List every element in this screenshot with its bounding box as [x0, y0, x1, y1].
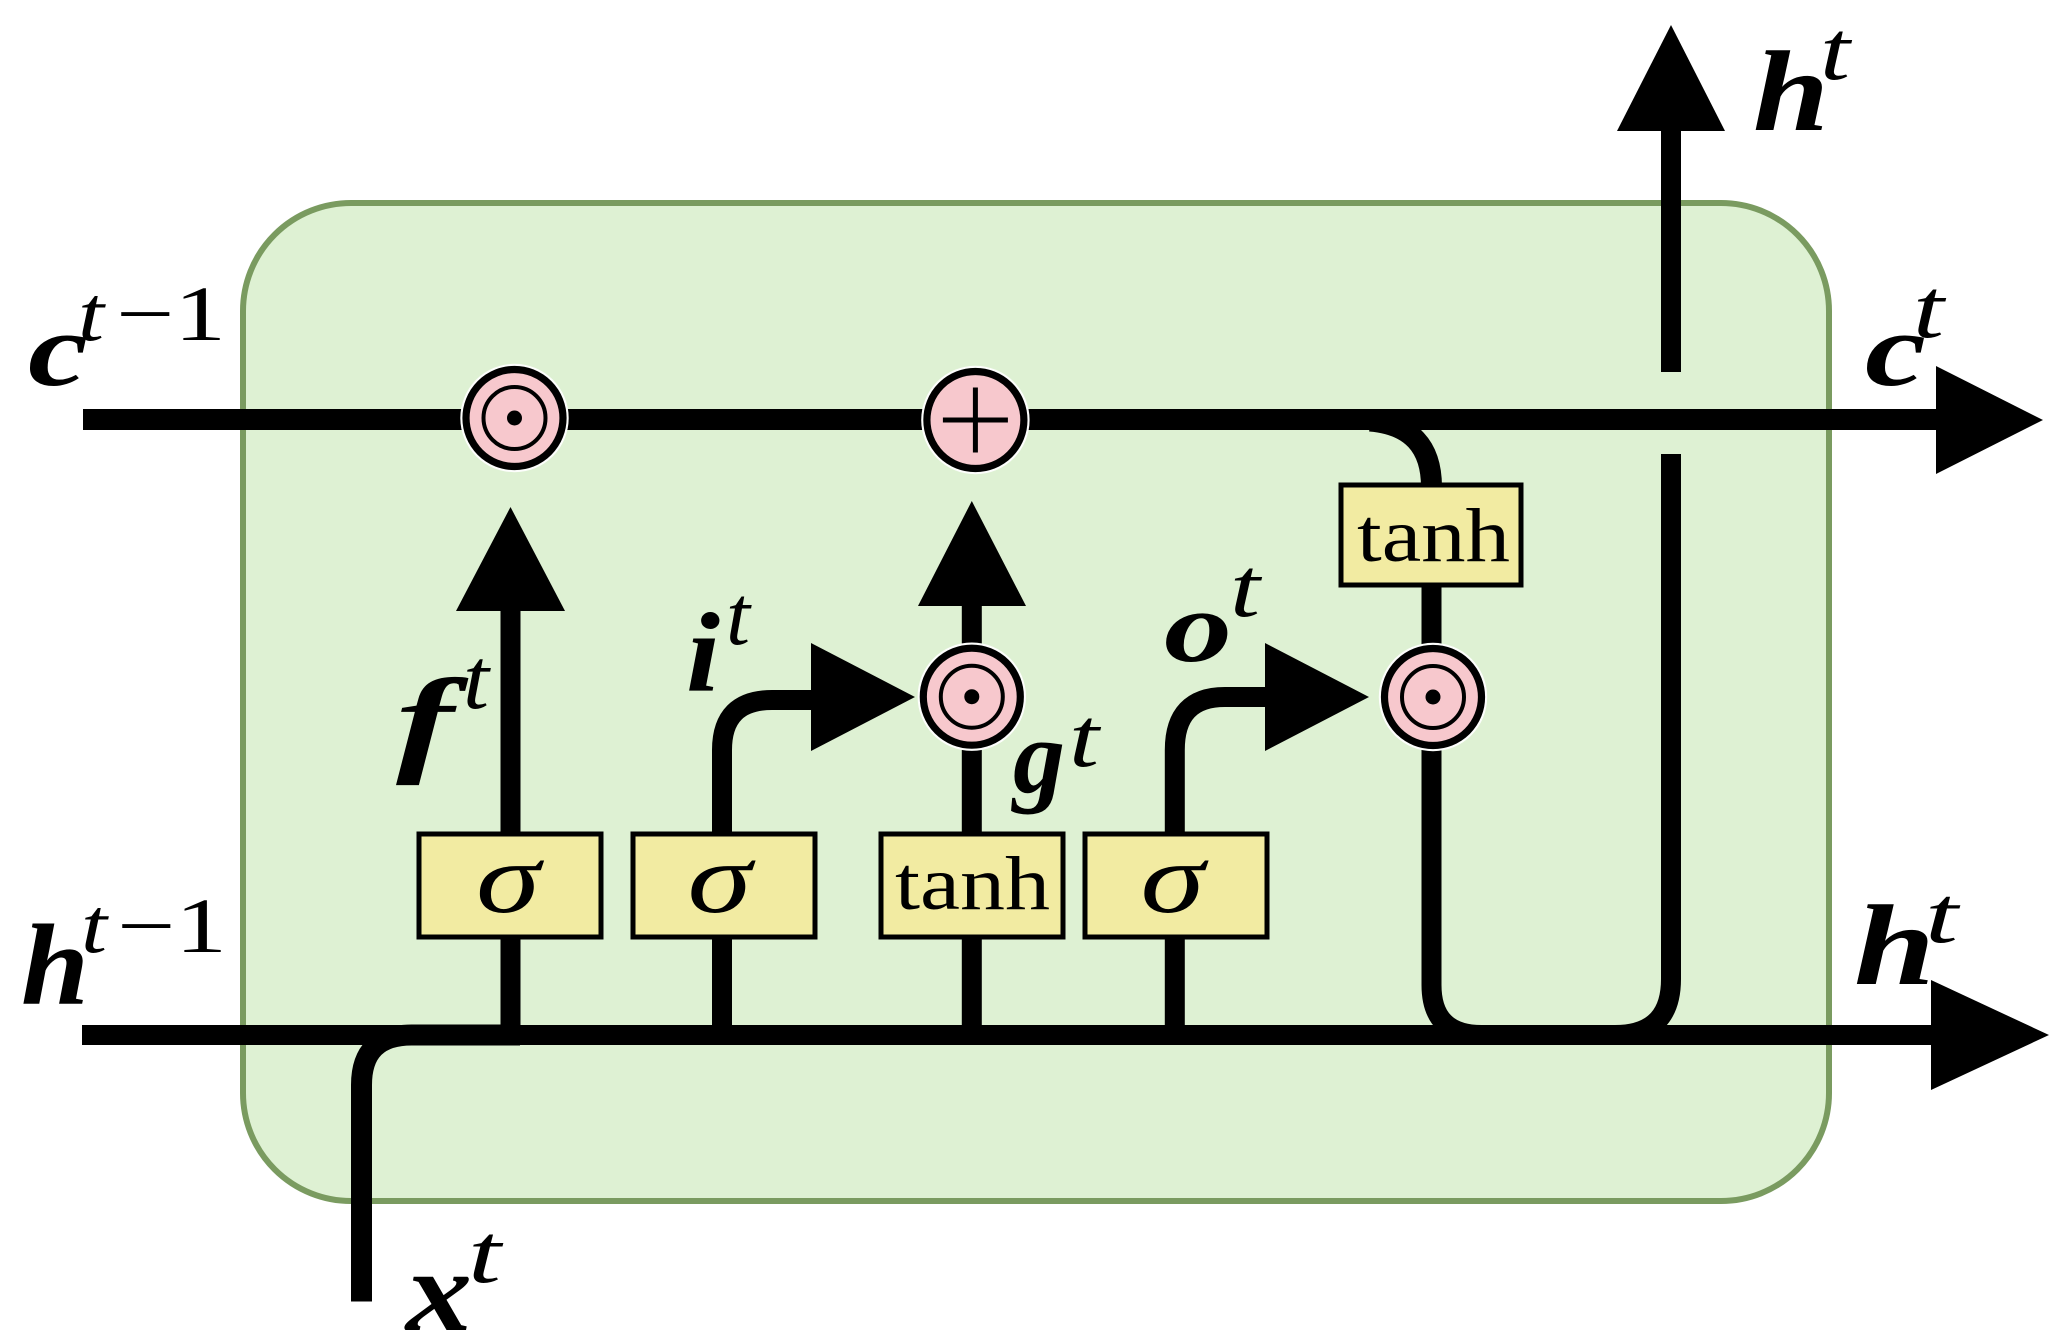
svg-text:t: t — [1820, 4, 1853, 98]
Hadamard node C (input multiply) — [918, 643, 1026, 751]
arrowhead o^t into Hadamard D — [1265, 643, 1369, 751]
svg-text:t: t — [1913, 262, 1947, 356]
Hadamard node D (output multiply) — [1379, 643, 1487, 751]
svg-text:σ: σ — [688, 823, 757, 934]
svg-text:t: t — [1925, 872, 1961, 960]
svg-text:tanh: tanh — [895, 842, 1050, 926]
svg-text:t: t — [468, 1207, 504, 1301]
wire: stem sigma box 2 (input gate) with curve to arrow — [722, 700, 812, 1035]
sigma box 2 (input gate) — [633, 834, 815, 937]
svg-text:h: h — [1753, 28, 1829, 155]
cell body (green rounded box) — [243, 203, 1829, 1201]
svg-text:σ: σ — [476, 823, 545, 934]
svg-text:i: i — [686, 591, 720, 716]
svg-text:x: x — [404, 1228, 472, 1344]
svg-text:tanh: tanh — [1357, 494, 1510, 578]
wire: branch from c-line down to right tanh box — [1370, 421, 1432, 487]
plus node B (state update add) on c-line — [921, 366, 1029, 474]
svg-text:h: h — [21, 902, 89, 1029]
svg-text:o: o — [1164, 571, 1232, 683]
arrowhead h^t top output — [1617, 25, 1725, 131]
wire: h-line (hidden state, horizontal bottom) — [82, 1025, 1933, 1045]
svg-text:t: t — [726, 569, 752, 663]
svg-text:−1: −1 — [116, 270, 226, 357]
svg-text:σ: σ — [1141, 823, 1210, 934]
wire: h^t up-branch upper segment crossing above c-line — [1661, 131, 1681, 372]
wire: c-line (cell state, horizontal top) — [83, 409, 1937, 430]
wire: stem sigma box 4 (output gate) with curve to arrow — [1175, 697, 1265, 1035]
arrowhead c^t output — [1936, 366, 2043, 474]
label h^t (bottom right) — [1854, 872, 1961, 1009]
wire: from right tanh box through Hadamard D down and curve into h-line — [1432, 585, 1561, 1035]
label g^t — [1011, 691, 1102, 815]
svg-text:t: t — [463, 630, 491, 727]
label o^t — [1164, 541, 1263, 683]
label i^t — [686, 569, 752, 716]
wire: stem through sigma box 1 (forget gate) — [501, 611, 521, 1035]
label x^t — [404, 1207, 505, 1344]
svg-text:t: t — [78, 270, 107, 357]
label f^t — [396, 630, 491, 786]
svg-text:g: g — [1011, 698, 1065, 815]
sigma box 1 (forget gate) — [419, 834, 601, 937]
label h^t (top right) — [1753, 4, 1853, 155]
wire: x^t input line curving into h-line — [362, 1035, 521, 1302]
svg-text:t: t — [81, 882, 110, 969]
label h^{t-1} — [21, 882, 227, 1029]
tanh box right (output squashing) — [1341, 485, 1521, 585]
svg-text:t: t — [1069, 691, 1102, 785]
sigma box 4 (output gate) — [1085, 834, 1267, 937]
arrowhead f^t into Hadamard A — [456, 507, 565, 611]
svg-text:h: h — [1854, 882, 1935, 1009]
wire: h^t up-branch from h-line (lower segment) — [1615, 454, 1671, 1035]
arrowhead g^t into plus — [918, 501, 1026, 606]
label c^{t-1} — [28, 270, 226, 408]
wire: stem through tanh box 3 (cell candidate) — [962, 749, 982, 1035]
arrowhead h^t right output — [1931, 980, 2049, 1090]
label c^t (right) — [1865, 262, 1947, 408]
arrowhead i^t into Hadamard C — [811, 643, 915, 751]
Hadamard node A (forget multiply) on c-line — [460, 364, 568, 472]
wire: g^t from Hadamard C up to plus — [962, 606, 982, 645]
svg-text:t: t — [1230, 541, 1263, 635]
svg-text:−1: −1 — [117, 882, 227, 969]
tanh box 3 (cell candidate) — [881, 834, 1063, 937]
